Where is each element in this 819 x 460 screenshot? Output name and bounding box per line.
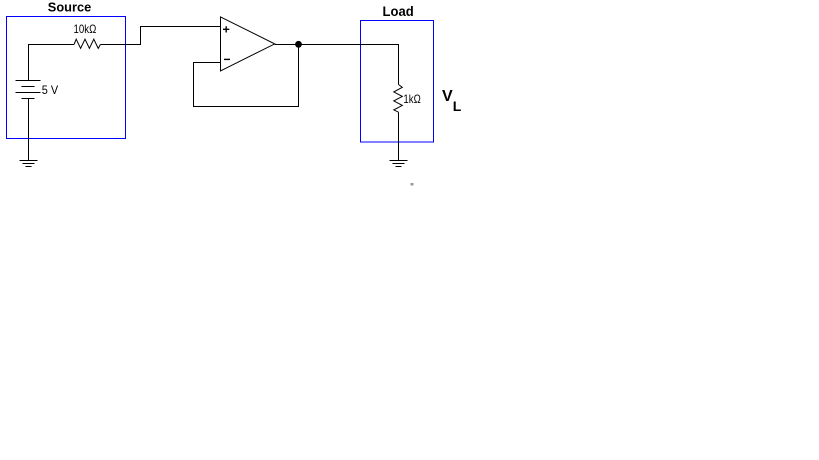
wire resistor to opamp plus input — [100, 27, 220, 45]
svg-text:5 V: 5 V — [42, 83, 59, 97]
wire battery bottom to ground — [28, 99, 30, 161]
ground symbol under source — [20, 161, 38, 167]
source box — [7, 17, 126, 139]
wire feedback: minus input loop to output — [194, 45, 299, 107]
op-amp minus pin mark — [224, 58, 230, 60]
svg-text:Load: Load — [383, 3, 414, 19]
ground symbol under load — [390, 161, 408, 167]
junction node dot at output — [295, 41, 302, 48]
wire opamp output to load — [275, 45, 399, 85]
battery V1 plate short — [22, 86, 35, 88]
svg-text:1kΩ: 1kΩ — [403, 92, 420, 106]
battery V1 plate short bottom — [22, 98, 35, 100]
op-amp U1 triangle — [221, 17, 275, 71]
wire load resistor to ground — [398, 112, 400, 160]
wire battery top to node — [29, 45, 75, 81]
op-amp plus pin mark — [223, 26, 229, 32]
resistor R1 10k zigzag — [74, 39, 100, 48]
svg-text:10kΩ: 10kΩ — [74, 22, 97, 36]
svg-text:Source: Source — [48, 0, 91, 15]
load box — [361, 21, 434, 143]
svg-text:L: L — [453, 98, 462, 114]
battery V1 plate long — [16, 92, 41, 94]
stray mark artifact — [411, 183, 414, 186]
battery V1 5V plate long top — [16, 80, 41, 82]
svg-text:V: V — [442, 88, 453, 105]
resistor RL 1k zigzag vertical — [394, 85, 403, 113]
